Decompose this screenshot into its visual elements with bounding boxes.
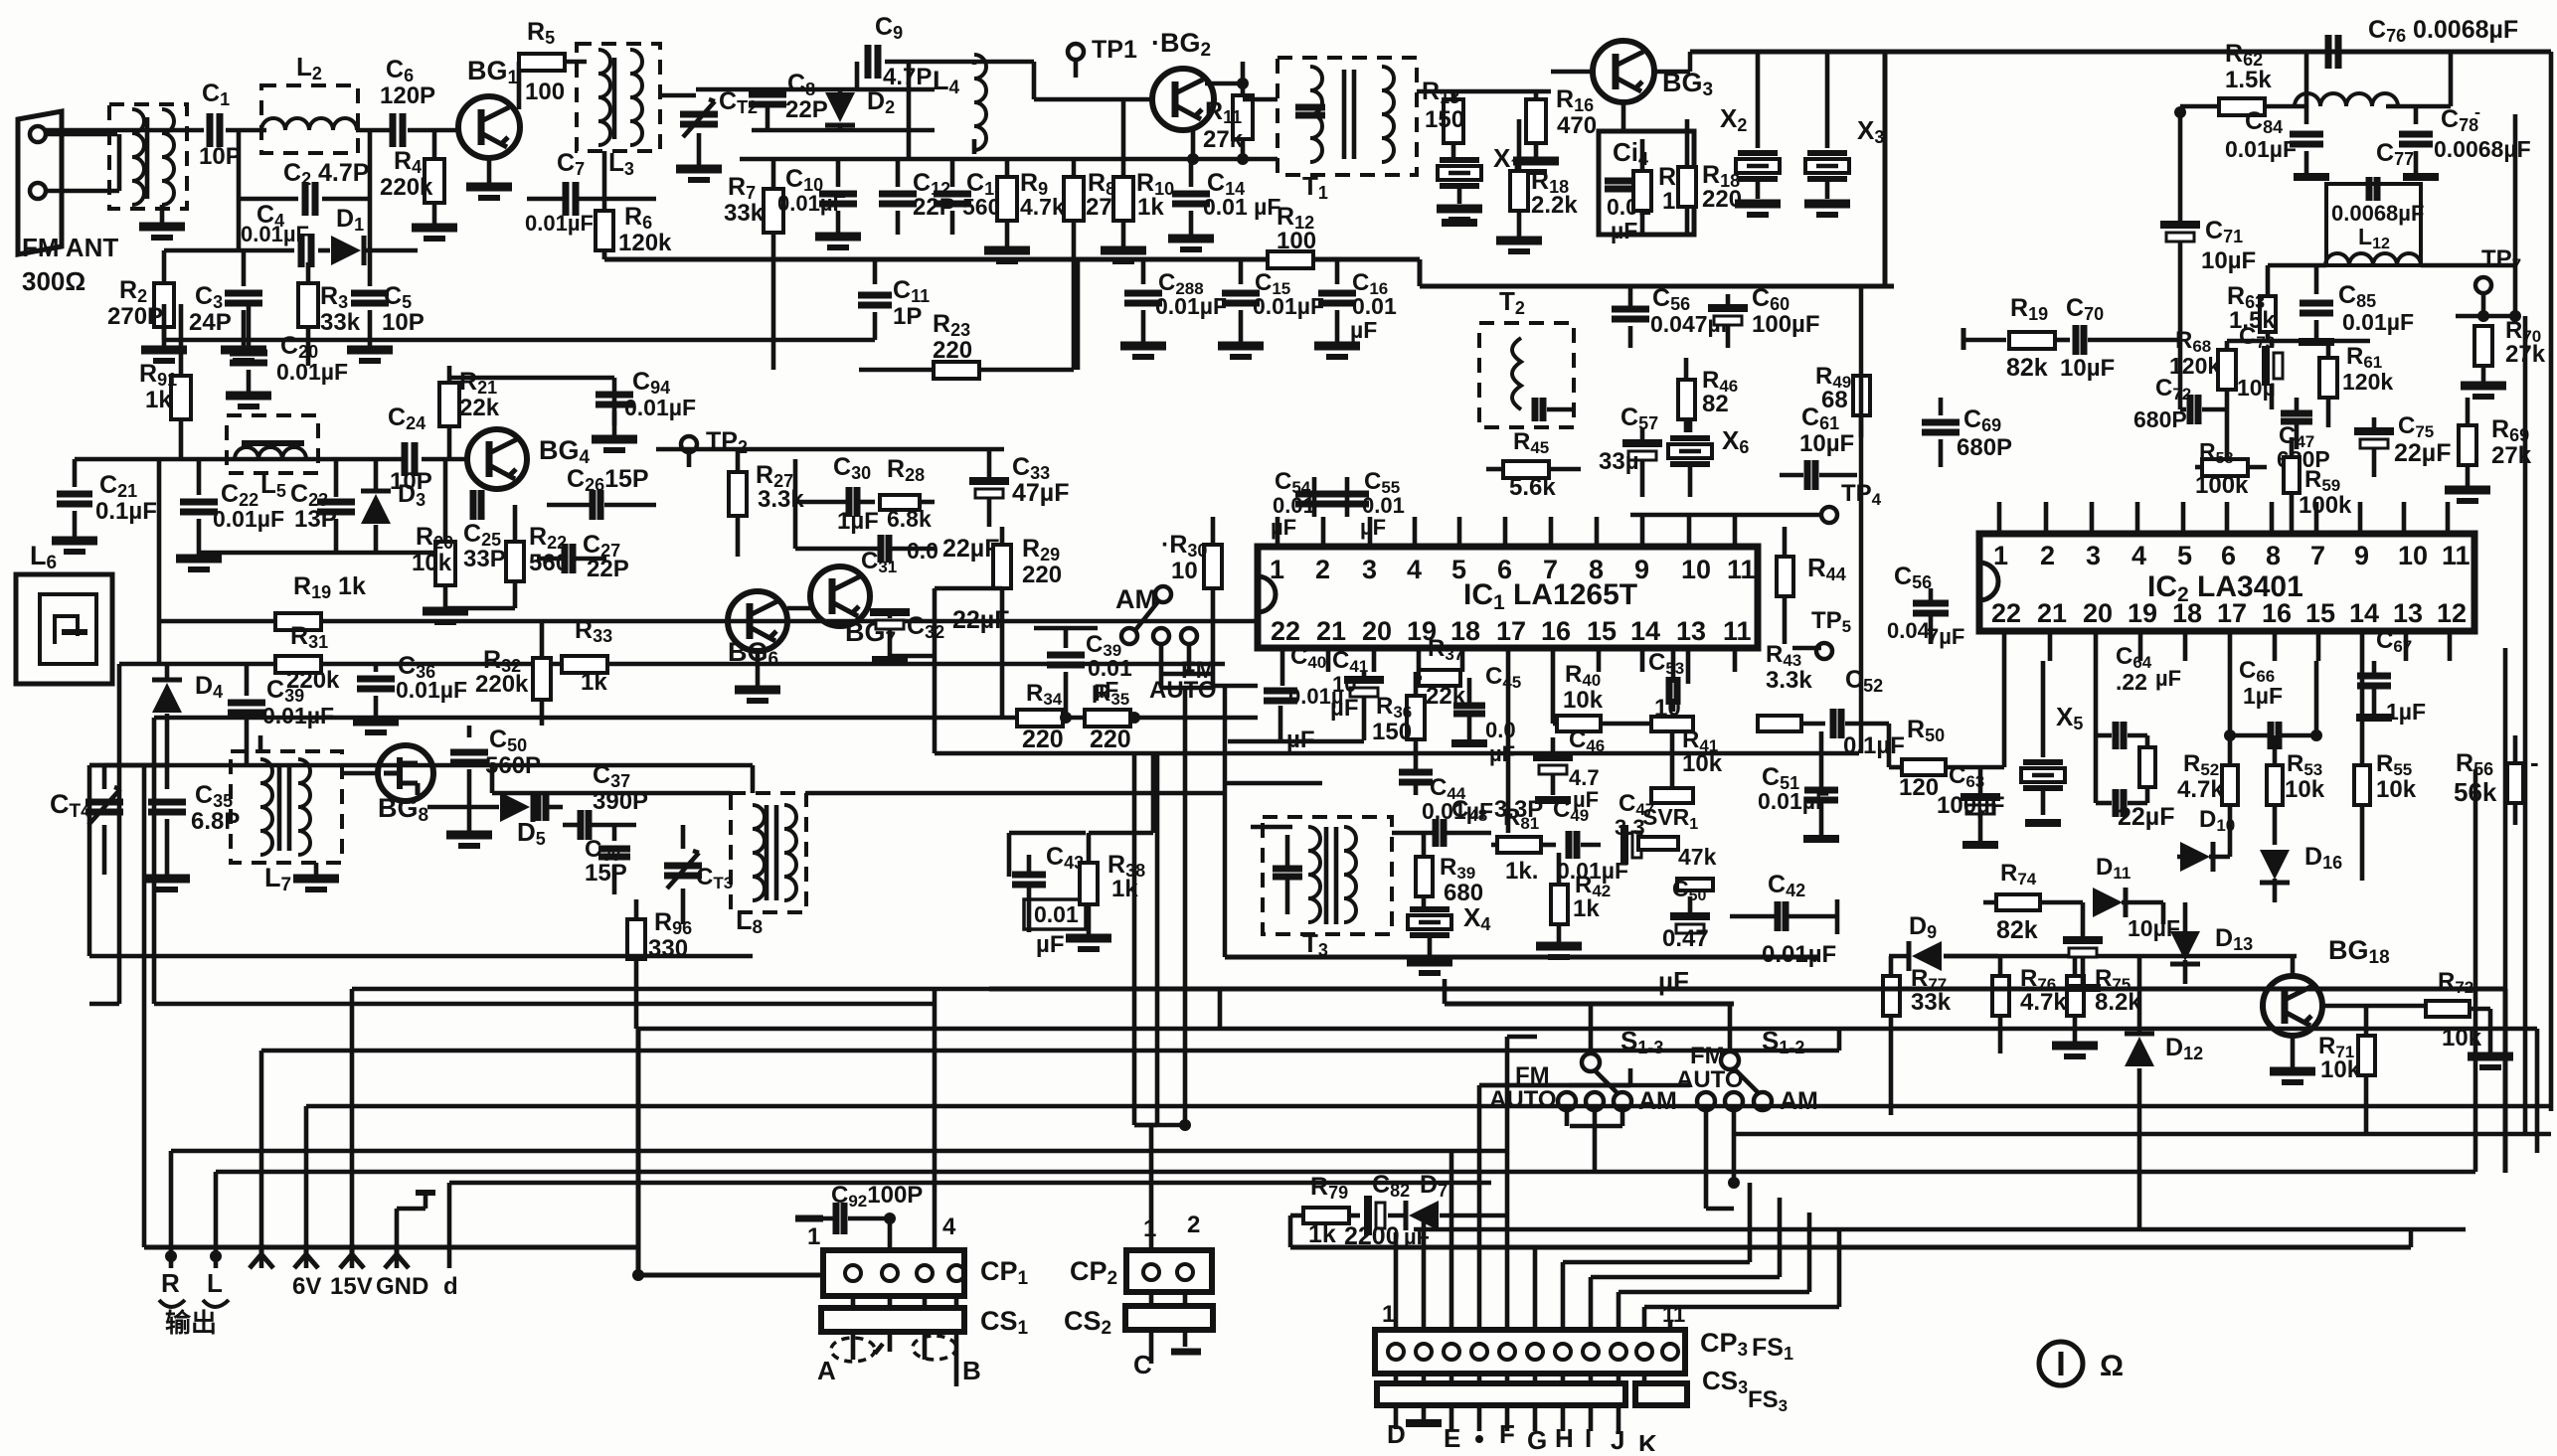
svg-text:0.01: 0.01 bbox=[1352, 293, 1397, 319]
svg-text:14: 14 bbox=[2349, 598, 2379, 628]
svg-text:B: B bbox=[962, 1356, 981, 1385]
svg-text:2: 2 bbox=[2040, 541, 2055, 570]
svg-text:220: 220 bbox=[1090, 726, 1131, 753]
svg-text:33k: 33k bbox=[320, 309, 361, 336]
svg-text:Ω: Ω bbox=[2100, 1350, 2124, 1382]
svg-text:150: 150 bbox=[1372, 719, 1412, 745]
svg-text:R: R bbox=[161, 1268, 180, 1298]
svg-text:11: 11 bbox=[1723, 616, 1752, 646]
svg-text:6: 6 bbox=[2221, 541, 2236, 570]
svg-text:10k: 10k bbox=[412, 550, 452, 576]
svg-text:300Ω: 300Ω bbox=[22, 266, 85, 296]
svg-text:2.2k: 2.2k bbox=[1531, 192, 1578, 219]
svg-text:AM: AM bbox=[1638, 1087, 1677, 1115]
svg-text:15P: 15P bbox=[585, 860, 627, 887]
svg-text:10µF: 10µF bbox=[2060, 355, 2115, 382]
svg-text:AUTO: AUTO bbox=[1676, 1066, 1744, 1093]
svg-text:1: 1 bbox=[1270, 555, 1284, 584]
svg-text:8: 8 bbox=[2266, 541, 2281, 570]
svg-text:120k: 120k bbox=[2169, 353, 2220, 379]
svg-text:33k: 33k bbox=[724, 200, 765, 227]
svg-text:4.7k: 4.7k bbox=[2177, 776, 2224, 803]
svg-text:µF: µF bbox=[1360, 515, 1386, 540]
svg-text:6V: 6V bbox=[292, 1273, 321, 1300]
svg-text:0.01µF: 0.01µF bbox=[276, 359, 348, 385]
svg-text:0.01µF: 0.01µF bbox=[2225, 136, 2297, 162]
svg-text:220k: 220k bbox=[380, 174, 433, 201]
svg-text:L: L bbox=[207, 1268, 223, 1298]
svg-text:27k: 27k bbox=[1203, 126, 1244, 153]
svg-text:47k: 47k bbox=[1678, 844, 1717, 870]
svg-text:100µF: 100µF bbox=[1937, 792, 2005, 819]
svg-text:C2 4.7P: C2 4.7P bbox=[283, 159, 369, 189]
svg-text:0.01µF: 0.01µF bbox=[241, 222, 309, 246]
svg-text:1µF: 1µF bbox=[2243, 683, 2283, 709]
svg-text:68: 68 bbox=[1821, 387, 1848, 413]
svg-text:0.47: 0.47 bbox=[1662, 925, 1709, 952]
svg-text:18: 18 bbox=[1450, 616, 1480, 646]
svg-text:220: 220 bbox=[933, 337, 972, 364]
svg-text:µF: µF bbox=[1286, 727, 1315, 753]
svg-text:6.8k: 6.8k bbox=[887, 506, 932, 532]
svg-text:3.3k: 3.3k bbox=[1766, 667, 1812, 694]
svg-text:10µ: 10µ bbox=[2237, 375, 2276, 401]
svg-text:22µF: 22µF bbox=[2394, 439, 2451, 467]
svg-text:F: F bbox=[1499, 1419, 1515, 1449]
svg-text:1: 1 bbox=[1382, 1301, 1395, 1328]
svg-text:TP1: TP1 bbox=[1092, 36, 1137, 64]
svg-text:33P: 33P bbox=[463, 546, 506, 572]
svg-text:3: 3 bbox=[1362, 555, 1377, 584]
svg-text:100k: 100k bbox=[2299, 492, 2352, 519]
svg-text:µF: µF bbox=[1330, 695, 1359, 722]
svg-text:19: 19 bbox=[2128, 598, 2157, 628]
svg-text:7: 7 bbox=[1543, 555, 1558, 584]
svg-text:17: 17 bbox=[1496, 616, 1526, 646]
svg-text:1: 1 bbox=[1993, 541, 2008, 570]
svg-text:0.01µF: 0.01µF bbox=[1253, 293, 1324, 319]
svg-text:220: 220 bbox=[1022, 726, 1064, 753]
svg-text:0.01µF: 0.01µF bbox=[1762, 941, 1836, 968]
svg-text:15: 15 bbox=[1587, 616, 1617, 646]
svg-text:82k: 82k bbox=[1996, 916, 2038, 944]
svg-text:470: 470 bbox=[1557, 112, 1597, 139]
svg-text:1k: 1k bbox=[581, 669, 607, 696]
svg-text:22µF: 22µF bbox=[2118, 803, 2174, 831]
svg-text:100: 100 bbox=[525, 79, 565, 105]
svg-text:8: 8 bbox=[1589, 555, 1604, 584]
svg-text:1k: 1k bbox=[1137, 194, 1164, 221]
svg-text:22: 22 bbox=[1271, 616, 1300, 646]
svg-text:FM ANT: FM ANT bbox=[22, 233, 118, 262]
svg-text:11: 11 bbox=[1727, 555, 1756, 584]
svg-text:0.01µF: 0.01µF bbox=[624, 395, 696, 420]
svg-text:9: 9 bbox=[1634, 555, 1649, 584]
svg-text:10k: 10k bbox=[1563, 687, 1604, 714]
svg-text:10k: 10k bbox=[1682, 750, 1723, 777]
svg-text:0.01µF: 0.01µF bbox=[525, 211, 594, 236]
svg-text:0.01: 0.01 bbox=[1034, 901, 1079, 927]
svg-text:120k: 120k bbox=[2342, 369, 2393, 395]
svg-text:C92100P: C92100P bbox=[831, 1182, 923, 1211]
svg-text:20: 20 bbox=[1362, 616, 1392, 646]
svg-text:11: 11 bbox=[2442, 541, 2471, 570]
svg-text:10µF: 10µF bbox=[1799, 430, 1854, 457]
svg-text:0.1µF: 0.1µF bbox=[1843, 732, 1905, 759]
svg-text:22P: 22P bbox=[587, 556, 629, 582]
svg-text:µF: µF bbox=[1611, 218, 1637, 243]
svg-text:10k: 10k bbox=[2285, 776, 2325, 803]
svg-text:GND: GND bbox=[376, 1273, 428, 1300]
svg-text:16: 16 bbox=[2262, 598, 2292, 628]
svg-text:100k: 100k bbox=[2195, 472, 2249, 499]
svg-text:22k: 22k bbox=[459, 395, 500, 421]
svg-text:I: I bbox=[1585, 1423, 1592, 1451]
svg-text:10µF: 10µF bbox=[2201, 247, 2256, 274]
svg-text:120: 120 bbox=[1899, 774, 1939, 801]
svg-text:1k: 1k bbox=[145, 387, 172, 413]
svg-text:2: 2 bbox=[1187, 1212, 1200, 1238]
svg-text:12: 12 bbox=[2437, 598, 2467, 628]
svg-text:D: D bbox=[1387, 1419, 1406, 1449]
svg-text:10k: 10k bbox=[2376, 776, 2417, 803]
svg-text:82k: 82k bbox=[2006, 354, 2048, 382]
svg-text:0.01µF: 0.01µF bbox=[396, 677, 467, 703]
svg-text:1µF: 1µF bbox=[837, 508, 879, 535]
svg-text:-: - bbox=[2530, 747, 2539, 777]
svg-text:3: 3 bbox=[2086, 541, 2101, 570]
svg-text:H: H bbox=[1555, 1423, 1574, 1451]
svg-text:5.6k: 5.6k bbox=[1509, 474, 1556, 501]
svg-text:4: 4 bbox=[942, 1213, 956, 1240]
svg-text:1.5k: 1.5k bbox=[2225, 67, 2272, 93]
svg-text:18: 18 bbox=[2172, 598, 2202, 628]
svg-text:0.01 µF: 0.01 µF bbox=[1203, 194, 1280, 220]
svg-text:输出: 输出 bbox=[165, 1308, 217, 1338]
svg-text:6: 6 bbox=[1497, 555, 1512, 584]
svg-text:0.04: 0.04 bbox=[1887, 618, 1931, 643]
svg-text:33µ: 33µ bbox=[1599, 448, 1639, 475]
svg-text:0.01µF: 0.01µF bbox=[213, 506, 284, 532]
svg-text:0.01µF: 0.01µF bbox=[777, 191, 846, 216]
svg-text:120P: 120P bbox=[380, 82, 435, 109]
svg-text:14: 14 bbox=[1630, 616, 1660, 646]
svg-text:2: 2 bbox=[1315, 555, 1330, 584]
svg-text:AM: AM bbox=[1780, 1087, 1818, 1115]
svg-text:0.1µF: 0.1µF bbox=[95, 498, 157, 525]
svg-text:22P: 22P bbox=[785, 96, 828, 123]
svg-text:13: 13 bbox=[1676, 616, 1706, 646]
svg-text:1: 1 bbox=[807, 1223, 820, 1250]
svg-text:15: 15 bbox=[2305, 598, 2335, 628]
svg-text:20: 20 bbox=[2083, 598, 2113, 628]
svg-text:C2615P: C2615P bbox=[567, 465, 649, 495]
svg-text:10P: 10P bbox=[382, 309, 425, 336]
svg-text:220k: 220k bbox=[475, 671, 529, 698]
svg-text:7µF: 7µF bbox=[1927, 624, 1964, 649]
svg-text:C: C bbox=[1133, 1350, 1152, 1379]
svg-text:15V: 15V bbox=[330, 1273, 373, 1300]
svg-text:A: A bbox=[817, 1356, 836, 1385]
svg-text:8.2k: 8.2k bbox=[2095, 989, 2141, 1016]
svg-text:FM: FM bbox=[1690, 1043, 1725, 1069]
svg-text:1P: 1P bbox=[893, 303, 922, 330]
svg-text:13P: 13P bbox=[294, 506, 337, 533]
svg-text:J: J bbox=[1611, 1425, 1624, 1451]
svg-text:AUTO: AUTO bbox=[1489, 1086, 1557, 1113]
svg-text:K: K bbox=[1638, 1429, 1657, 1451]
svg-text:10: 10 bbox=[1171, 558, 1198, 584]
svg-text:680P: 680P bbox=[1957, 434, 2012, 461]
svg-text:0.0: 0.0 bbox=[907, 538, 938, 564]
svg-text:0.01µF: 0.01µF bbox=[2342, 309, 2414, 335]
svg-text:10: 10 bbox=[2398, 541, 2428, 570]
svg-text:µF: µF bbox=[1271, 515, 1296, 540]
svg-text:4: 4 bbox=[2131, 541, 2146, 570]
svg-text:17: 17 bbox=[2217, 598, 2247, 628]
svg-text:0.01µF: 0.01µF bbox=[1758, 788, 1829, 814]
svg-text:.22: .22 bbox=[2116, 669, 2147, 695]
svg-text:270P: 270P bbox=[107, 303, 163, 330]
svg-text:E: E bbox=[1444, 1423, 1460, 1451]
svg-text:21: 21 bbox=[2037, 598, 2067, 628]
svg-text:24P: 24P bbox=[189, 309, 232, 336]
svg-text:680P: 680P bbox=[2133, 406, 2187, 432]
svg-text:9: 9 bbox=[2354, 541, 2369, 570]
svg-text:2200: 2200 bbox=[1344, 1222, 1400, 1250]
svg-text:16: 16 bbox=[1541, 616, 1571, 646]
svg-text:µF: µF bbox=[1350, 317, 1377, 343]
svg-text:5: 5 bbox=[2177, 541, 2192, 570]
svg-text:10: 10 bbox=[1332, 672, 1356, 697]
svg-text:82: 82 bbox=[1702, 391, 1729, 417]
svg-text:µF: µF bbox=[1036, 931, 1065, 958]
svg-text:4.7k: 4.7k bbox=[2020, 989, 2067, 1016]
svg-text:1µF: 1µF bbox=[2386, 699, 2426, 725]
svg-text:d: d bbox=[443, 1273, 458, 1300]
svg-text:120k: 120k bbox=[618, 230, 672, 256]
svg-text:0.0: 0.0 bbox=[1485, 718, 1516, 742]
svg-text:5: 5 bbox=[1451, 555, 1466, 584]
svg-text:10P: 10P bbox=[199, 143, 242, 170]
svg-text:0.01µF: 0.01µF bbox=[1155, 293, 1227, 319]
svg-text:4: 4 bbox=[1407, 555, 1422, 584]
svg-text:47µF: 47µF bbox=[1012, 479, 1069, 507]
svg-text:10: 10 bbox=[1681, 555, 1711, 584]
svg-text:µF: µF bbox=[2155, 666, 2181, 691]
svg-text:0.01µF: 0.01µF bbox=[1557, 858, 1628, 884]
svg-text:G: G bbox=[1527, 1425, 1547, 1451]
svg-text:33k: 33k bbox=[1911, 989, 1952, 1016]
svg-text:13: 13 bbox=[2393, 598, 2423, 628]
svg-text:4.7k: 4.7k bbox=[1020, 194, 1065, 220]
svg-text:220: 220 bbox=[1022, 562, 1062, 588]
svg-text:21: 21 bbox=[1316, 616, 1346, 646]
svg-text:10k: 10k bbox=[2320, 1056, 2361, 1083]
svg-text:10µF: 10µF bbox=[2128, 915, 2180, 941]
svg-text:1k.: 1k. bbox=[1505, 858, 1538, 885]
svg-text:150: 150 bbox=[1425, 106, 1464, 133]
svg-text:22µF: 22µF bbox=[942, 535, 999, 563]
svg-text:1k: 1k bbox=[1573, 895, 1600, 922]
svg-text:1k: 1k bbox=[1308, 1220, 1336, 1248]
svg-text:22: 22 bbox=[1991, 598, 2021, 628]
svg-text:µF: µF bbox=[1489, 741, 1515, 766]
svg-text:100µF: 100µF bbox=[1752, 311, 1820, 338]
svg-text:0.0068µF: 0.0068µF bbox=[2331, 201, 2424, 226]
svg-text:7: 7 bbox=[2310, 541, 2325, 570]
